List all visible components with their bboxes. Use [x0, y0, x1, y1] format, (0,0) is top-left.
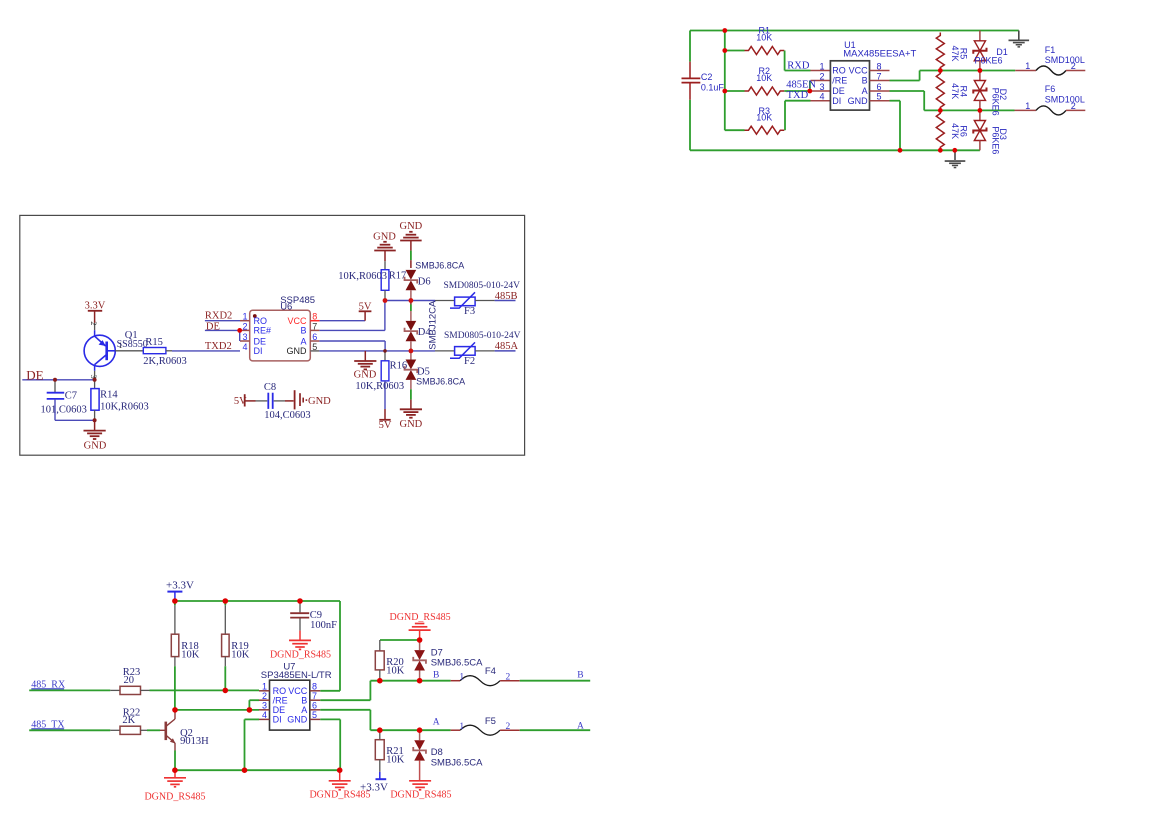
svg-text:5V: 5V — [379, 420, 392, 431]
svg-text:6: 6 — [877, 82, 882, 92]
svg-text:10K: 10K — [231, 650, 250, 661]
svg-text:485A: 485A — [495, 341, 519, 352]
svg-text:DGND_RS485: DGND_RS485 — [144, 791, 205, 802]
svg-text:A: A — [577, 721, 584, 731]
svg-text:DGND_RS485: DGND_RS485 — [390, 612, 451, 623]
svg-text:1: 1 — [1025, 101, 1030, 111]
svg-text:RXD2: RXD2 — [205, 311, 232, 322]
svg-text:B: B — [433, 671, 439, 681]
svg-text:+3.3V: +3.3V — [360, 782, 388, 794]
svg-text:DE: DE — [26, 367, 43, 382]
svg-text:8: 8 — [877, 61, 882, 71]
svg-text:+3.3V: +3.3V — [166, 579, 194, 591]
svg-text:SMBJ6.5CA: SMBJ6.5CA — [431, 657, 483, 668]
svg-text:DE: DE — [206, 322, 220, 333]
svg-text:B: B — [301, 695, 307, 705]
svg-text:F4: F4 — [485, 666, 496, 677]
svg-text:6: 6 — [312, 701, 317, 711]
svg-text:DE: DE — [832, 86, 845, 96]
svg-text:10K: 10K — [386, 754, 405, 765]
svg-text:2K,R0603: 2K,R0603 — [143, 356, 186, 367]
svg-text:2: 2 — [262, 691, 267, 701]
svg-text:RXD: RXD — [787, 60, 810, 71]
svg-text:3: 3 — [242, 332, 247, 342]
svg-text:SS8550: SS8550 — [117, 339, 148, 350]
svg-text:SP3485EN-L/TR: SP3485EN-L/TR — [261, 670, 332, 681]
svg-text:DI: DI — [832, 96, 841, 106]
svg-text:5: 5 — [877, 92, 882, 102]
svg-text:/RE: /RE — [832, 76, 847, 86]
svg-text:C8: C8 — [264, 382, 276, 393]
svg-text:SMBJ6.5CA: SMBJ6.5CA — [431, 757, 483, 768]
svg-text:SMBJ12CA: SMBJ12CA — [428, 300, 439, 350]
svg-text:VCC: VCC — [287, 316, 307, 326]
svg-text:F1: F1 — [1045, 45, 1056, 55]
svg-text:1: 1 — [819, 61, 824, 71]
svg-text:F2: F2 — [464, 356, 475, 367]
svg-text:5: 5 — [312, 710, 317, 720]
svg-text:2: 2 — [89, 321, 99, 325]
svg-text:SMD0805-010-24V: SMD0805-010-24V — [444, 331, 521, 341]
svg-text:GND: GND — [308, 396, 331, 407]
svg-text:A: A — [300, 336, 306, 346]
svg-text:10K: 10K — [386, 666, 405, 677]
svg-text:485B: 485B — [495, 291, 518, 302]
svg-text:4: 4 — [242, 342, 247, 352]
svg-text:A: A — [862, 86, 868, 96]
svg-text:F6: F6 — [1045, 84, 1056, 94]
svg-text:MAX485EESA+T: MAX485EESA+T — [843, 49, 916, 60]
svg-text:D8: D8 — [431, 747, 443, 758]
svg-text:/RE: /RE — [273, 695, 288, 705]
svg-text:SMD100L: SMD100L — [1045, 55, 1085, 65]
svg-text:GND: GND — [373, 231, 396, 242]
svg-text:RE#: RE# — [254, 326, 272, 336]
svg-text:F5: F5 — [485, 716, 496, 727]
svg-text:SMD100L: SMD100L — [1045, 95, 1085, 105]
svg-text:SMBJ6.8CA: SMBJ6.8CA — [415, 260, 464, 270]
svg-text:U6: U6 — [280, 302, 292, 313]
svg-text:B: B — [862, 76, 868, 86]
svg-text:VCC: VCC — [849, 66, 869, 76]
svg-text:3: 3 — [262, 701, 267, 711]
svg-text:RO: RO — [254, 316, 268, 326]
svg-text:A: A — [301, 705, 307, 715]
svg-text:GND: GND — [287, 715, 308, 725]
svg-text:GND: GND — [848, 96, 869, 106]
svg-text:R15: R15 — [145, 337, 163, 348]
svg-text:DI: DI — [254, 346, 263, 356]
svg-text:7: 7 — [312, 691, 317, 701]
svg-text:B: B — [300, 326, 306, 336]
svg-text:10K: 10K — [756, 32, 772, 42]
svg-text:TXD: TXD — [787, 90, 809, 101]
svg-text:3: 3 — [819, 82, 824, 92]
svg-text:GND: GND — [84, 440, 107, 451]
svg-text:DI: DI — [273, 715, 282, 725]
svg-text:SMD0805-010-24V: SMD0805-010-24V — [444, 281, 521, 291]
svg-text:TXD2: TXD2 — [205, 341, 232, 352]
svg-text:1: 1 — [459, 673, 464, 683]
svg-text:P6KE6: P6KE6 — [975, 56, 1003, 66]
svg-text:R16: R16 — [390, 360, 408, 371]
svg-text:10K,R0603: 10K,R0603 — [355, 381, 404, 392]
svg-text:2: 2 — [506, 722, 511, 732]
svg-text:5V: 5V — [359, 302, 372, 313]
svg-text:DE: DE — [273, 705, 286, 715]
svg-text:C7: C7 — [65, 390, 77, 401]
svg-text:1: 1 — [242, 312, 247, 322]
svg-text:DGND_RS485: DGND_RS485 — [270, 649, 331, 660]
svg-text:SMBJ6.8CA: SMBJ6.8CA — [416, 376, 465, 386]
svg-text:DE: DE — [254, 336, 267, 346]
svg-text:P6KE6: P6KE6 — [991, 88, 1001, 116]
svg-text:2K: 2K — [122, 715, 135, 726]
svg-text:GND: GND — [400, 419, 423, 430]
svg-text:10K: 10K — [756, 73, 772, 83]
svg-text:4: 4 — [819, 92, 824, 102]
svg-text:D6: D6 — [418, 277, 431, 288]
svg-text:A: A — [433, 717, 440, 727]
svg-text:2: 2 — [506, 673, 511, 683]
svg-text:GND: GND — [287, 346, 308, 356]
svg-text:RO: RO — [832, 66, 846, 76]
svg-text:1: 1 — [1025, 61, 1030, 71]
svg-text:10K,R0603: 10K,R0603 — [338, 271, 387, 282]
svg-text:101,C0603: 101,C0603 — [41, 405, 87, 416]
svg-text:R14: R14 — [100, 389, 118, 400]
svg-text:9013H: 9013H — [180, 736, 209, 747]
svg-text:B: B — [577, 671, 583, 681]
svg-text:2: 2 — [819, 71, 824, 81]
svg-text:DGND_RS485: DGND_RS485 — [390, 790, 451, 801]
svg-text:GND: GND — [400, 221, 423, 232]
svg-text:4: 4 — [262, 710, 267, 720]
svg-text:47K: 47K — [950, 123, 960, 139]
svg-text:GND: GND — [354, 369, 377, 380]
svg-text:7: 7 — [877, 71, 882, 81]
svg-text:10K: 10K — [756, 113, 772, 123]
svg-text:47K: 47K — [950, 83, 960, 99]
svg-text:C2: C2 — [701, 72, 713, 82]
svg-text:10K,R0603: 10K,R0603 — [100, 402, 149, 413]
svg-text:2: 2 — [1071, 61, 1076, 71]
svg-text:2: 2 — [242, 321, 247, 331]
svg-text:F3: F3 — [464, 306, 475, 317]
svg-text:47K: 47K — [950, 45, 960, 61]
svg-text:10K: 10K — [181, 650, 200, 661]
svg-text:2: 2 — [1071, 101, 1076, 111]
svg-text:104,C0603: 104,C0603 — [264, 410, 310, 421]
svg-text:1: 1 — [459, 722, 464, 732]
svg-text:0.1uF: 0.1uF — [701, 83, 725, 93]
svg-text:P6KE6: P6KE6 — [991, 126, 1001, 154]
svg-text:100nF: 100nF — [310, 620, 337, 631]
svg-text:3.3V: 3.3V — [85, 300, 106, 311]
svg-text:20: 20 — [124, 675, 135, 686]
